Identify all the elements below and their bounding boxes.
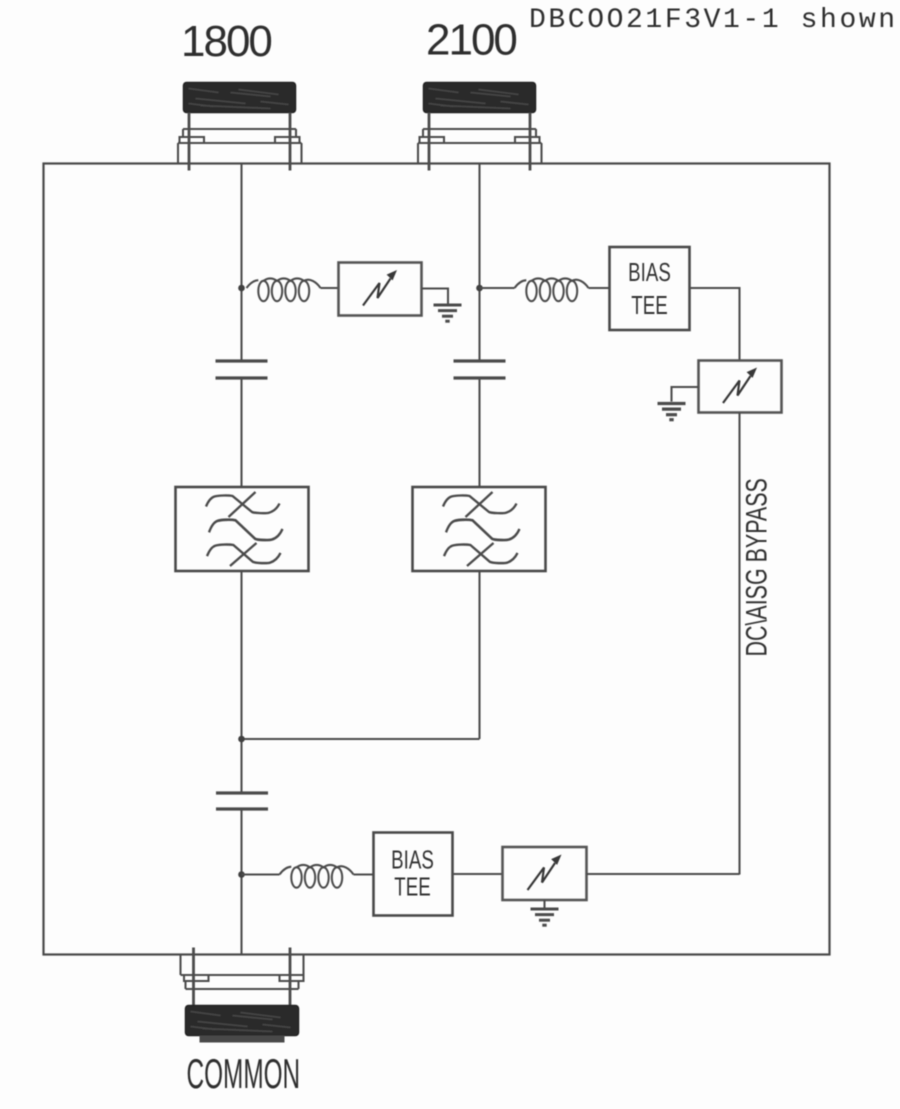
wire: A3 to bypass line	[587, 873, 740, 875]
svg-text:DBCOO21F3V1-1 shown: DBCOO21F3V1-1 shown	[529, 5, 898, 36]
svg-text:1800: 1800	[181, 17, 271, 66]
svg-text:COMMON: COMMON	[187, 1051, 301, 1097]
wire: L1 to attenuator	[321, 287, 339, 289]
ground G2	[658, 404, 686, 420]
ground G3	[531, 909, 559, 925]
svg-text:BIAS: BIAS	[628, 257, 671, 287]
filter F1 (1800 band-pass)	[176, 487, 309, 571]
wire: left branch vertical lower	[240, 571, 242, 793]
connector port 2100	[418, 83, 542, 171]
node: junction left top	[238, 285, 245, 292]
svg-text:DC\AISG BYPASS: DC\AISG BYPASS	[739, 478, 774, 656]
wire: B1 to bypass line	[690, 288, 740, 361]
variable attenuator box A2	[699, 361, 782, 413]
inductor L2	[515, 278, 589, 301]
bias tee B2 box	[374, 833, 453, 916]
connector port COMMON	[181, 948, 304, 1043]
wire: left branch vertical upper	[240, 164, 242, 361]
capacitor C1	[216, 361, 268, 378]
filter F2 (2100 band-pass)	[413, 487, 546, 571]
wire: A1 to ground	[422, 289, 449, 305]
wire: left branch vertical mid	[240, 379, 242, 488]
inductor L3	[280, 865, 354, 888]
label BIAS TEE B1	[628, 257, 671, 287]
wire: A3 to ground	[543, 900, 545, 908]
variable attenuator box A1	[339, 263, 422, 316]
label BIAS TEE B2	[391, 844, 434, 874]
node: junction right top	[476, 285, 483, 292]
wire: A2 to ground	[672, 387, 699, 402]
bias tee B1 box	[610, 247, 690, 330]
connector port 1800	[178, 83, 302, 171]
label COMMON	[187, 1051, 301, 1097]
ground G1	[434, 305, 462, 321]
wire: right branch vertical upper	[478, 164, 480, 361]
label DC\AISG BYPASS	[739, 478, 774, 656]
inductor L1	[247, 278, 321, 301]
node: junction combiner	[238, 736, 245, 743]
svg-text:TEE: TEE	[631, 290, 667, 320]
wire: right branch vertical lower	[478, 571, 480, 740]
wire: B2 to attenuator A3	[453, 873, 503, 875]
wire: right branch vertical mid	[478, 379, 480, 488]
node: junction bottom	[238, 871, 245, 878]
svg-text:2100: 2100	[426, 15, 516, 64]
wire: junction to L2	[480, 287, 515, 289]
capacitor C3	[454, 361, 506, 378]
wire: DC AISG bypass vertical	[738, 413, 740, 875]
variable attenuator box A3	[503, 847, 587, 900]
enclosure box	[44, 164, 830, 955]
wire: left branch vertical bottom	[240, 810, 242, 955]
svg-text:BIAS: BIAS	[391, 844, 434, 874]
wire: L2 to bias tee	[589, 287, 610, 289]
wire: junction to L3	[242, 873, 280, 875]
capacitor C2	[216, 793, 268, 809]
wire: combiner horizontal	[242, 738, 480, 740]
wire: L3 to bias tee B2	[354, 873, 374, 875]
svg-text:TEE: TEE	[394, 871, 430, 901]
